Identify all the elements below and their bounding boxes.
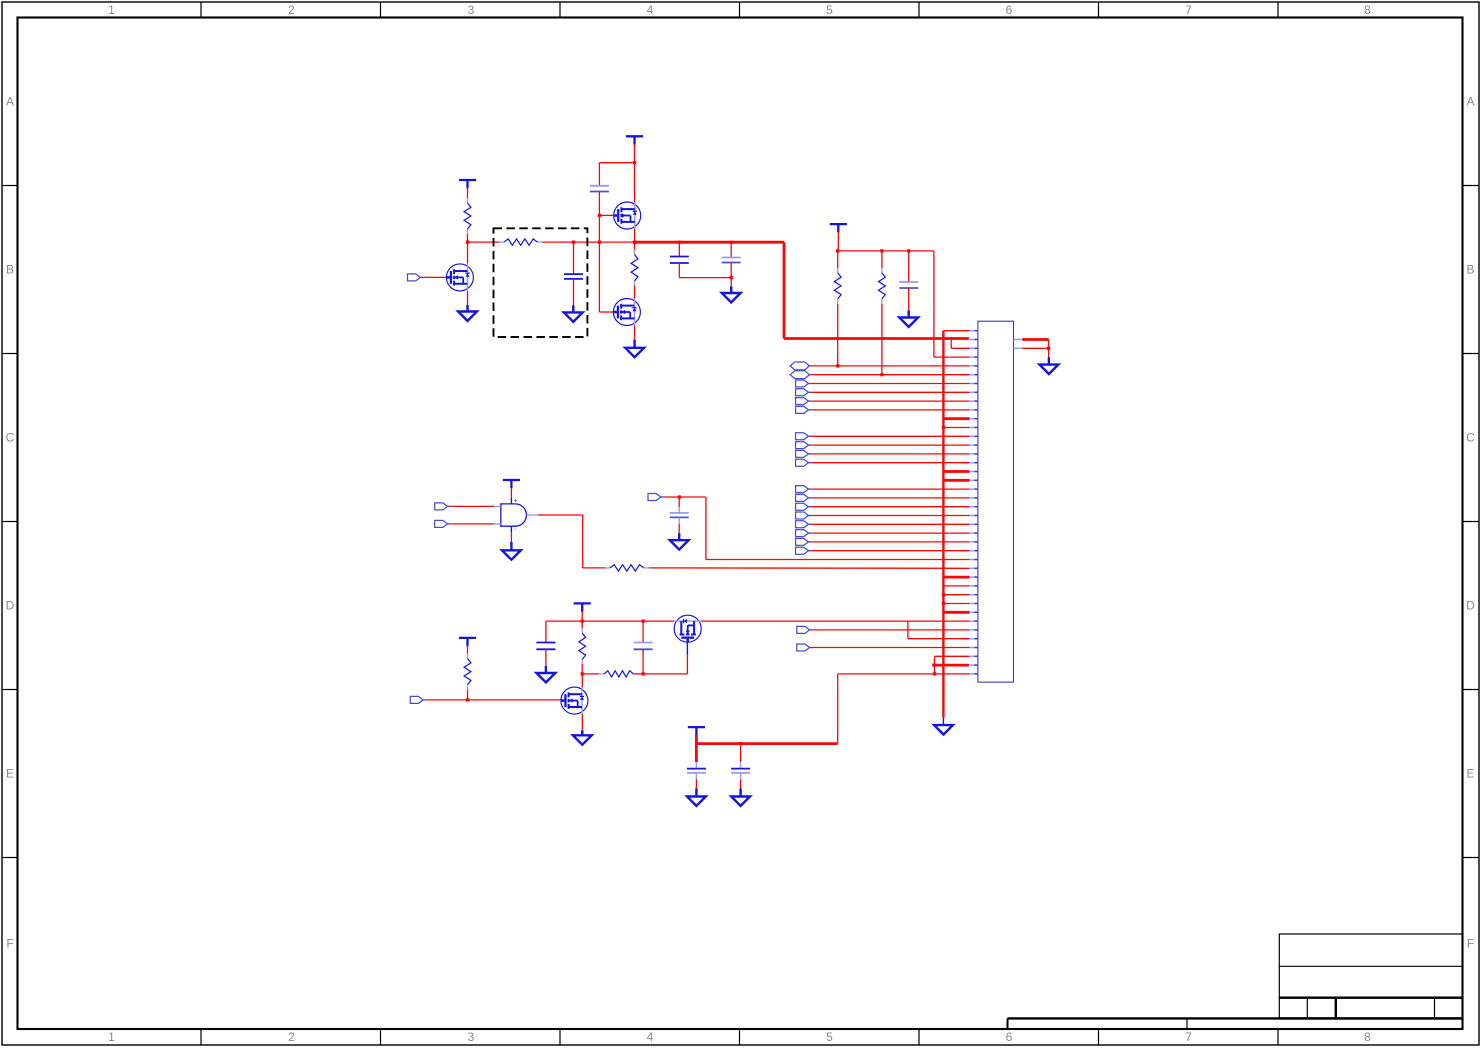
ground GND2 (564, 305, 583, 321)
junction C8 bottom (641, 672, 644, 675)
trunk ground stub (942, 718, 944, 725)
wire P27 down (705, 497, 707, 560)
port P16 (796, 459, 812, 466)
wire rail to C8 (642, 621, 644, 642)
port P-U1B (435, 520, 451, 527)
junction cap gnd node (730, 276, 733, 279)
port P13 (796, 433, 812, 440)
ground GND1 (458, 305, 477, 321)
svg-text:A: A (1466, 95, 1474, 109)
wire right net to GND6 (1048, 348, 1050, 357)
wire pin10 row (811, 409, 969, 411)
ground GND6 (1040, 357, 1059, 374)
U1 input stub A (494, 505, 501, 507)
column labels top (108, 3, 1371, 17)
wire pin21 row (811, 506, 969, 508)
wire VCC1 to R1 (467, 188, 469, 199)
wire to R8 (582, 673, 599, 675)
wire VOUT thick to connector (784, 337, 969, 340)
transistor Q4 gate stub (686, 642, 688, 655)
junction C5 top (907, 249, 910, 252)
wire VCC4 to U1 (510, 488, 512, 498)
junction R5 / pin6 line (880, 373, 883, 376)
wire VOUT thick horizontal (635, 241, 785, 244)
power symbol VCC3 (830, 224, 847, 232)
U1 output stub (527, 514, 539, 516)
junction at C1 tap (572, 240, 575, 243)
C9 top lead stub (695, 762, 697, 769)
resistor R4 (834, 268, 841, 304)
port P25 (796, 538, 812, 545)
wire VCC6 to R9 (467, 646, 469, 654)
wire pin32 stub (943, 603, 969, 605)
wire pin9 row (811, 400, 969, 402)
wire top link to VCC2 rail (599, 162, 634, 164)
capacitor C4 (722, 258, 741, 263)
svg-text:3: 3 (468, 1030, 475, 1044)
wire pin24 row (811, 532, 969, 534)
junction pin40 / jog (933, 672, 936, 675)
wire pin20 row (811, 497, 969, 499)
junction pin12 on trunk (942, 426, 945, 429)
U1 input stub B (494, 523, 501, 525)
junction right gnd net (1047, 347, 1050, 350)
column tick lines top (201, 2, 1278, 18)
port P21 (796, 503, 812, 510)
wire pin3R (1022, 347, 1048, 349)
svg-text:B: B (6, 263, 14, 277)
wire C5 to GND5 (908, 288, 910, 311)
wire C6 to GND8 (678, 524, 680, 533)
wire pin34 row (908, 620, 970, 622)
wire U1 out down (582, 515, 584, 568)
wire R4 to pin5 net (837, 304, 839, 366)
title block bottom edge (1279, 1017, 1462, 1019)
svg-text:5: 5 (826, 1030, 833, 1044)
wire VOUT trunk vertical (942, 331, 944, 718)
ground GND7 (502, 542, 521, 560)
ground GND5 (899, 311, 918, 327)
wire pin31 stub (943, 594, 969, 596)
ground GND11 (934, 725, 953, 734)
op-amp U1 (AND gate) power stub (510, 498, 512, 504)
wire pin14 row (811, 444, 969, 446)
wire pin28 row (R6 net) (649, 567, 970, 569)
capacitor C1 (564, 274, 583, 279)
port P19 (796, 486, 812, 493)
U1 ground stub (510, 526, 512, 532)
svg-text:+: + (514, 498, 518, 505)
wire pin38 row (935, 655, 970, 657)
wire Q3 source to GND3 (634, 325, 636, 340)
port P27 (648, 494, 664, 501)
svg-text:A: A (6, 95, 14, 109)
wire R2 node to C1 (573, 242, 575, 274)
wire VCC3 to R5 (881, 251, 883, 268)
wire bottom rail thick (696, 742, 837, 745)
svg-text:4: 4 (647, 1030, 654, 1044)
wire pin2R down (1048, 340, 1050, 349)
wire R8 to Q4 gate net (633, 673, 687, 675)
wire U1 output (538, 514, 583, 516)
wire C4 bottom (730, 263, 732, 278)
wire pin38-40 jog (934, 656, 936, 674)
wire pin26 row (811, 550, 969, 552)
junction VCC2 branch (633, 161, 636, 164)
title block divider 1 (1279, 965, 1462, 967)
transistor Q5 (NMOS) (561, 687, 588, 714)
port P-Q5 gate (410, 696, 426, 703)
wire rail to C7 (545, 621, 547, 642)
svg-text:6: 6 (1006, 3, 1013, 17)
ground GND9 (537, 666, 556, 682)
power symbol VCC7 (688, 727, 705, 735)
wire pin15 row (811, 453, 969, 455)
wire pin2R thick (1022, 338, 1048, 341)
junction pin39 (932, 663, 935, 666)
title block outline (1279, 934, 1462, 1018)
svg-text:1: 1 (108, 1030, 115, 1044)
C10 top lead stub (740, 762, 742, 769)
ground GND10 (573, 730, 592, 744)
wire R9 to gate net (467, 690, 469, 700)
port P5 (bidir) (790, 362, 812, 370)
wire VOUT thick vertical (783, 242, 786, 338)
bottom strip box (1008, 1018, 1463, 1029)
svg-text:4: 4 (647, 3, 654, 17)
port P7 (796, 380, 812, 387)
capacitor C8 (634, 643, 653, 650)
wire pin18 thick stub (943, 479, 969, 482)
junction half-bridge output node (633, 241, 636, 244)
svg-text:D: D (6, 599, 15, 613)
wire to C3 (678, 242, 680, 256)
svg-text:C: C (1466, 431, 1475, 445)
wire U1 to GND7 (510, 532, 512, 542)
junction C3 tap (678, 241, 681, 244)
wire VCC3 rail horizontal (838, 250, 934, 252)
wire pin3 row (951, 347, 969, 349)
wire cap gnd link (679, 277, 731, 279)
wire VCC3 to R4 (837, 251, 839, 268)
capacitor C2 (590, 186, 609, 192)
wire Q5 source to GND10 (581, 714, 583, 731)
port P14 (796, 442, 812, 449)
port P6 (bidir) (790, 371, 812, 379)
ground GND12 (687, 789, 706, 806)
wire R2 to half-bridge node (543, 241, 635, 243)
port P37 (797, 644, 813, 651)
wire pin5 row (812, 365, 969, 367)
capacitor C10 (731, 769, 750, 773)
wire C10 to GND13 (740, 779, 742, 788)
svg-text:D: D (1466, 599, 1475, 613)
wire VCC2 to Q2 drain (634, 144, 636, 203)
wire pin22 row (811, 515, 969, 517)
row labels left (6, 95, 15, 951)
port P9 (796, 398, 812, 405)
port P10 (796, 406, 812, 413)
wire pin1 stub (943, 330, 969, 332)
svg-text:5: 5 (826, 3, 833, 17)
wire Q4 drain to pin34 (701, 620, 908, 622)
wire C8 down (642, 649, 644, 674)
junction R4 / pin5 line (836, 364, 839, 367)
wire pin19 row (811, 488, 969, 490)
dashed box (snubber network) (494, 228, 588, 337)
power symbol VCC5 (574, 603, 591, 611)
junction C10 tap (739, 742, 742, 745)
junction C4 tap (730, 241, 733, 244)
port P-U1A (435, 503, 451, 510)
port P8 (796, 389, 812, 396)
svg-text:-: - (514, 527, 516, 534)
junction pin31 on trunk (942, 593, 945, 596)
junction gate Q2 (598, 214, 601, 217)
wire VCC7 stub (695, 735, 698, 744)
C6 bottom lead stub (678, 517, 680, 523)
wire Q2 source to R3 (634, 229, 636, 254)
wire pin12 stub (943, 427, 969, 429)
title block divider 2 (1279, 997, 1462, 999)
wire R1 to node1 (467, 234, 469, 242)
port P15 (796, 450, 812, 457)
wire pin39 thick stub (934, 664, 969, 667)
wire to GND4 (730, 278, 732, 287)
port P26 (796, 547, 812, 554)
junction at gate rail (598, 240, 601, 243)
wire Q1 drain (467, 242, 469, 264)
gate U1 (AND) body (501, 504, 527, 526)
wire pin25 row (811, 541, 969, 543)
junction R7 / Q5 drain (581, 672, 584, 675)
wire pin33 thick stub (943, 611, 969, 614)
wire to C4 (730, 242, 732, 257)
wire R7 down (581, 664, 583, 674)
wire pin17 thick stub (943, 470, 969, 473)
wire VCC3 to pin4 (933, 251, 935, 357)
svg-text:F: F (1467, 936, 1474, 950)
port P20 (796, 494, 812, 501)
wire pin7 row (811, 383, 969, 385)
junction R9 bottom (466, 698, 469, 701)
C6 top lead stub (678, 507, 680, 513)
capacitor C6 (670, 513, 689, 517)
wire R3 to Q3 drain (634, 286, 636, 300)
wire rail to R7 (581, 621, 583, 628)
wire pin30 stub (943, 585, 969, 587)
C9 bottom lead stub (695, 773, 697, 779)
capacitor C5 (899, 282, 918, 288)
resistor R6 (605, 565, 649, 571)
connector J1 right pins (pin 2R,3R) (1014, 340, 1023, 349)
transistor Q4 (PMOS, rotated) (674, 615, 701, 642)
C10 bottom lead stub (740, 773, 742, 779)
power symbol VCC1 (459, 180, 476, 188)
wire rail riser (837, 674, 839, 744)
wire U1 input B (450, 523, 494, 525)
wire to C6 (678, 497, 680, 507)
column tick lines bottom (201, 1029, 1278, 1045)
node N1 junction (466, 240, 469, 243)
svg-text:E: E (1466, 767, 1474, 781)
junction R4 top (836, 249, 839, 252)
resistor R3 (631, 250, 638, 287)
wire node1 to R2 (468, 241, 500, 243)
connector J1 left pins (970, 331, 978, 674)
row labels right (1466, 95, 1475, 951)
svg-text:2: 2 (288, 1030, 295, 1044)
svg-text:E: E (6, 767, 14, 781)
port P24 (796, 530, 812, 537)
junction pin32 on trunk (942, 602, 945, 605)
resistor R1 (464, 198, 471, 234)
wire pin40 row (838, 673, 970, 675)
wire pin8 row (811, 391, 969, 393)
wire pin37 row (812, 647, 969, 649)
transistor Q2 (high-side) (614, 202, 641, 229)
svg-text:B: B (1466, 263, 1474, 277)
port P23 (796, 521, 812, 528)
wire VCC5 rail horizontal (546, 620, 674, 622)
junction C6 tap (678, 495, 681, 498)
wire pin27 row (706, 559, 970, 561)
transistor Q1 (NMOS) (446, 264, 473, 291)
wire to Q2 gate (599, 214, 614, 216)
ground GND4 (722, 287, 741, 303)
wire Q1 source (467, 291, 469, 305)
wire pin36 row (908, 638, 970, 640)
wire down to C2 (598, 163, 600, 186)
wire C7 to GND9 (545, 649, 547, 666)
capacitor C7 (536, 643, 555, 650)
wire gate rail vertical (598, 192, 600, 313)
svg-text:8: 8 (1364, 1030, 1371, 1044)
power symbol VCC4 (503, 480, 520, 488)
svg-text:3: 3 (468, 3, 475, 17)
wire Q5 gate long (426, 699, 561, 701)
wire Q5 drain (581, 674, 583, 688)
resistor R2 (in dashed box) (499, 239, 542, 245)
ground GND13 (731, 789, 750, 806)
row tick lines right (1463, 186, 1480, 858)
svg-text:2: 2 (288, 3, 295, 17)
wire VCC3 down (837, 232, 839, 251)
wire pin3 jog vertical (950, 339, 952, 349)
svg-text:F: F (6, 936, 13, 950)
wire pin13 row (811, 435, 969, 437)
junction C8 top (641, 619, 644, 622)
wire U1 input A (450, 505, 494, 507)
power symbol VCC2 (626, 136, 643, 144)
wire pin4 row (934, 356, 970, 358)
svg-text:1: 1 (108, 3, 115, 17)
wire P27 right (664, 496, 706, 498)
capacitor C9 (687, 769, 706, 773)
capacitor C3 (670, 257, 689, 264)
wire Q4 gate down (686, 655, 688, 674)
junction R5 top (880, 249, 883, 252)
title block cell dividers (1307, 998, 1434, 1019)
wire to C5 (908, 251, 910, 282)
row tick lines left (2, 186, 18, 858)
wire pin16 row (811, 462, 969, 464)
resistor R7 (579, 628, 586, 665)
svg-text:C: C (6, 431, 15, 445)
port IN1 (Q1 gate) (408, 274, 424, 281)
ground GND3 (625, 340, 644, 357)
wire pin23 row (811, 523, 969, 525)
transistor Q3 (low-side) (613, 298, 640, 325)
wire to R6 (583, 567, 605, 569)
wire R5 to pin6 net (881, 304, 883, 375)
wire IN1 to Q1 gate (423, 276, 446, 278)
wire C3 to gnd node (678, 263, 680, 278)
wire rail to C9 thick (695, 744, 698, 762)
port P22 (796, 512, 812, 519)
wire to Q3 gate (599, 311, 614, 313)
resistor R5 (879, 268, 886, 304)
connector J1 body (978, 321, 1014, 682)
port P35 (797, 626, 813, 633)
wire C1 to GND2 (573, 279, 575, 306)
wire pin29 thick stub (943, 576, 969, 579)
resistor R8 (599, 671, 638, 677)
junction VCC5 rail (581, 619, 584, 622)
wire rail to C10 (740, 744, 742, 762)
svg-text:7: 7 (1185, 1030, 1192, 1044)
power symbol VCC6 (459, 638, 476, 646)
wire VCC5 down (581, 611, 583, 621)
wire pin35 row (812, 629, 969, 631)
svg-text:8: 8 (1364, 3, 1371, 17)
svg-text:6: 6 (1006, 1030, 1013, 1044)
svg-text:7: 7 (1185, 3, 1192, 17)
wire pin34-36 jog (907, 621, 909, 639)
resistor R9 (464, 654, 471, 690)
wire pin11 thick stub (943, 417, 969, 420)
wire pin6 row (812, 374, 969, 376)
wire C9 to GND12 (695, 779, 697, 788)
column labels bottom (108, 1030, 1371, 1044)
ground GND8 (670, 533, 689, 549)
